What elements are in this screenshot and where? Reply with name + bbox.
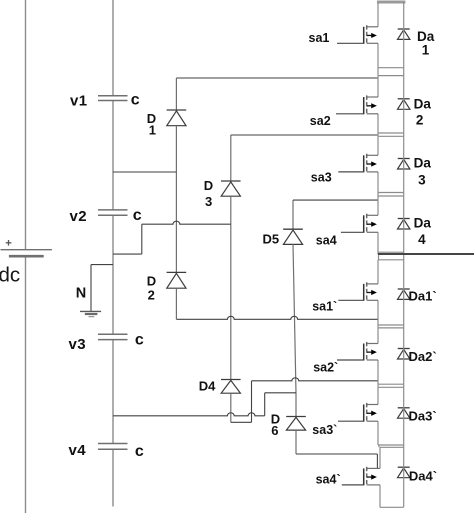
wire capacitor bus seg4 <box>112 340 114 443</box>
wire branch B middle segment <box>230 196 232 379</box>
diode Da1` <box>398 289 410 299</box>
svg-text:sa4: sa4 <box>316 234 337 248</box>
transistor sa4p <box>342 467 380 486</box>
wire capacitor bus seg5 <box>112 450 114 507</box>
wire clamp j2'3' <box>252 378 379 381</box>
wire right diode rail <box>403 2 405 507</box>
transistor sa4 <box>341 214 378 233</box>
wire junction j1'2' rail stub <box>377 325 379 328</box>
capacitor v3 <box>98 334 128 339</box>
wire capacitor bus seg1 <box>112 0 114 95</box>
diode Da4` <box>398 467 410 478</box>
svg-text:sa1`: sa1` <box>312 300 337 314</box>
svg-text:Da: Da <box>414 156 432 171</box>
diode Da2 <box>398 99 410 110</box>
wire clamp j1'2' <box>176 316 378 319</box>
svg-text:sa4`: sa4` <box>316 473 341 487</box>
wire clamp j2'3' riser <box>251 381 253 423</box>
diode D5 <box>283 229 303 244</box>
diode D6 <box>286 417 306 431</box>
transistor sa3 <box>338 154 378 173</box>
svg-text:D: D <box>204 178 213 193</box>
svg-text:sa3`: sa3` <box>312 423 337 437</box>
wire dc bus lower segment <box>25 256 27 513</box>
wire branch A top segment <box>175 78 177 110</box>
svg-text:Da4`: Da4` <box>409 469 437 484</box>
svg-text:N: N <box>76 286 86 302</box>
svg-text:3: 3 <box>418 173 426 188</box>
wire clamp j12 <box>176 77 378 79</box>
wire branch B bottom segment <box>230 393 232 422</box>
wire n1 tap <box>113 171 176 173</box>
transistor sa2 <box>336 95 378 114</box>
svg-text:D4: D4 <box>199 379 216 394</box>
wire N staircase to branch B <box>142 221 231 224</box>
transistor sa1 <box>337 25 378 44</box>
wire junction j23 rail stub <box>377 133 379 136</box>
svg-text:Da: Da <box>414 216 432 231</box>
svg-text:sa1: sa1 <box>309 31 330 45</box>
wire branch C bottom segment <box>295 430 297 454</box>
svg-text:sa3: sa3 <box>311 171 332 185</box>
battery Vdc positive plate <box>1 249 52 251</box>
diode Da1 <box>398 29 410 39</box>
svg-text:4: 4 <box>418 232 426 247</box>
wire clamp j34 <box>293 199 378 201</box>
wire branch A bottom segment <box>175 288 177 319</box>
wire output to cell5 stub <box>378 254 380 260</box>
switch cell box sa3p <box>378 387 404 445</box>
diode Da3` <box>398 408 410 418</box>
wire capacitor bus seg2 <box>112 101 114 210</box>
switch cell box sa1p <box>378 260 404 325</box>
wire node N drop <box>90 265 92 312</box>
svg-text:sa2`: sa2` <box>313 361 338 375</box>
svg-text:c: c <box>135 331 144 348</box>
diode Da3 <box>398 159 410 170</box>
switch cell box sa4p <box>380 447 404 507</box>
wire node N arm <box>91 264 113 266</box>
capacitor v4 <box>98 444 128 450</box>
svg-text:D5: D5 <box>263 232 280 247</box>
battery Vdc negative plate <box>9 255 44 258</box>
svg-text:v4: v4 <box>69 442 87 459</box>
capacitor v2 <box>98 210 128 215</box>
svg-text:dc: dc <box>0 264 20 287</box>
wire junction j3'4' rail stub <box>378 445 380 447</box>
wire junction j12 rail stub <box>377 68 379 76</box>
svg-text:2: 2 <box>416 112 424 127</box>
switch cell box sa1 <box>377 2 405 68</box>
wire capacitor bus seg3 <box>112 216 114 334</box>
svg-text:Da: Da <box>414 97 432 112</box>
wire n3 riser <box>264 393 266 416</box>
wire junction output rail stub <box>377 252 379 254</box>
wire output node <box>378 253 474 255</box>
svg-text:c: c <box>131 92 140 109</box>
wire branch C top segment <box>292 200 294 229</box>
svg-text:3: 3 <box>205 194 212 209</box>
diode Da2` <box>398 349 410 360</box>
svg-text:v3: v3 <box>69 336 87 353</box>
wire branch A middle segment <box>175 126 177 273</box>
svg-text:2: 2 <box>148 288 155 303</box>
label + polarity <box>6 240 12 246</box>
svg-text:1: 1 <box>422 42 430 57</box>
svg-text:D: D <box>147 274 156 289</box>
transistor sa2p <box>337 342 378 361</box>
svg-text:c: c <box>135 443 144 460</box>
transistor sa3p <box>338 403 378 422</box>
wire clamp j3'4' riser <box>376 454 378 468</box>
wire N staircase horizontal low <box>113 253 142 255</box>
switch cell box sa3 <box>378 136 404 192</box>
capacitor v1 <box>98 96 128 101</box>
wire junction j34 rail stub <box>377 193 379 197</box>
switch cell box sa4 <box>378 196 404 252</box>
svg-text:v2: v2 <box>70 208 88 225</box>
svg-text:6: 6 <box>271 423 278 438</box>
diode D1 <box>167 110 187 126</box>
switch cell box sa2 <box>378 76 404 133</box>
svg-text:1: 1 <box>149 123 156 138</box>
wire dc bus upper segment <box>25 0 27 250</box>
wire branch C long segment <box>293 244 296 416</box>
diode D4 <box>221 380 241 394</box>
wire D4 anode link <box>231 421 252 423</box>
svg-text:Da3`: Da3` <box>409 409 437 424</box>
wire n3 tap <box>113 413 265 416</box>
svg-text:v1: v1 <box>70 93 88 110</box>
wire clamp j3'4' <box>296 453 377 455</box>
svg-text:c: c <box>133 207 142 224</box>
svg-text:Da1`: Da1` <box>409 288 437 303</box>
ground <box>80 311 101 316</box>
wire branch B top segment <box>230 135 232 181</box>
wire junction j2'3' rail stub <box>377 384 379 387</box>
switch cell box sa2p <box>378 328 404 384</box>
transistor sa1p <box>338 282 378 301</box>
wire clamp j23 <box>231 134 378 136</box>
wire N staircase vertical <box>141 224 143 254</box>
svg-text:Da2`: Da2` <box>409 349 437 364</box>
diode Da4 <box>398 219 410 230</box>
diode D3 <box>221 181 241 196</box>
svg-text:sa2: sa2 <box>310 114 331 128</box>
diode D2 <box>167 272 187 288</box>
wire n3 arm to branch C <box>265 392 296 394</box>
